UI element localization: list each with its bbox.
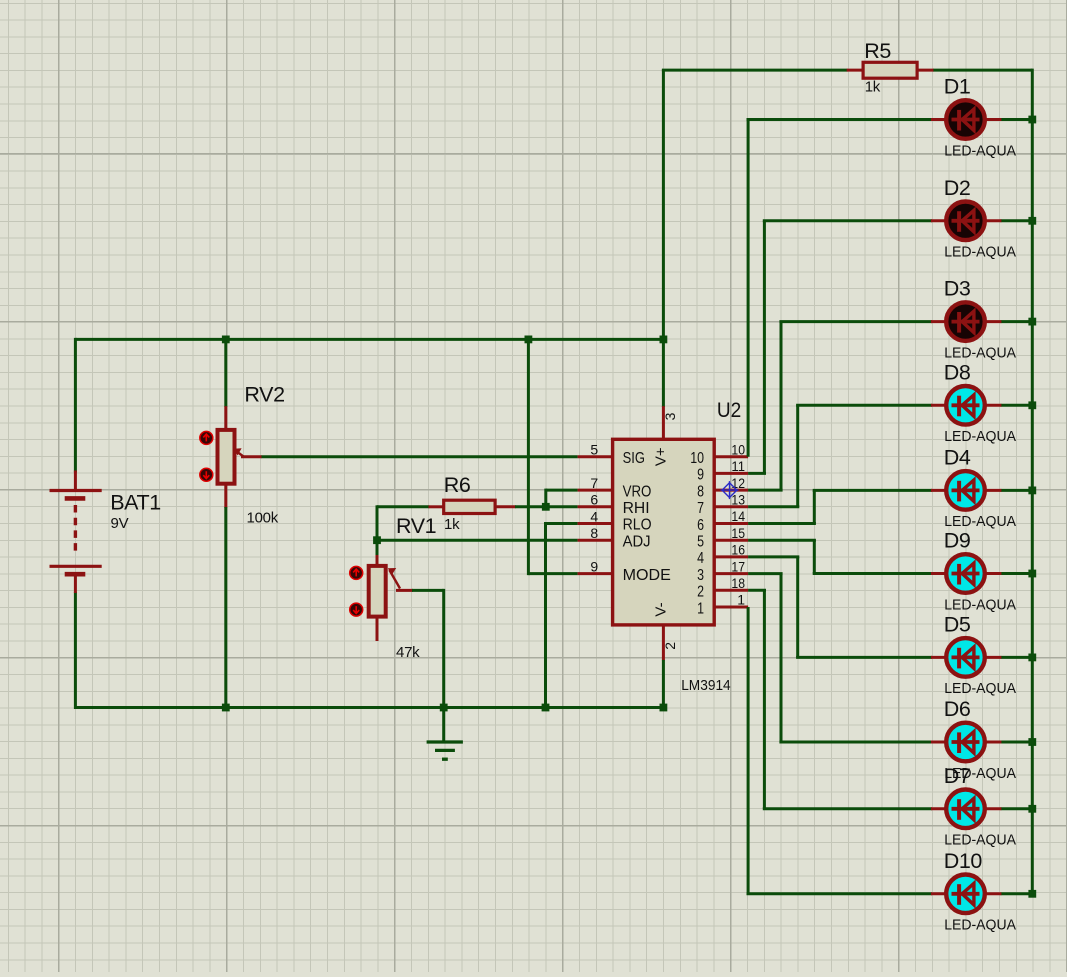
svg-text:LED-AQUA: LED-AQUA bbox=[944, 428, 1016, 445]
svg-text:1: 1 bbox=[737, 592, 745, 608]
svg-text:R6: R6 bbox=[444, 473, 471, 497]
svg-text:7: 7 bbox=[697, 500, 704, 517]
svg-text:1k: 1k bbox=[865, 79, 881, 96]
svg-text:4: 4 bbox=[590, 508, 598, 524]
svg-text:ADJ: ADJ bbox=[623, 533, 651, 550]
svg-text:SIG: SIG bbox=[623, 450, 645, 467]
svg-text:5: 5 bbox=[697, 534, 704, 551]
svg-text:7: 7 bbox=[590, 475, 598, 491]
svg-text:LED-AQUA: LED-AQUA bbox=[944, 244, 1016, 261]
svg-text:D6: D6 bbox=[944, 697, 971, 721]
svg-text:9: 9 bbox=[697, 467, 704, 484]
svg-text:10: 10 bbox=[731, 441, 745, 457]
svg-text:VRO: VRO bbox=[623, 483, 652, 500]
svg-text:RV2: RV2 bbox=[244, 382, 284, 406]
svg-text:D5: D5 bbox=[944, 612, 971, 636]
svg-text:D4: D4 bbox=[944, 445, 971, 469]
svg-text:10: 10 bbox=[690, 450, 704, 467]
svg-text:1k: 1k bbox=[444, 516, 460, 533]
svg-text:LED-AQUA: LED-AQUA bbox=[944, 596, 1016, 613]
svg-text:12: 12 bbox=[731, 475, 745, 491]
svg-text:RLO: RLO bbox=[623, 517, 652, 534]
svg-text:4: 4 bbox=[697, 550, 704, 567]
svg-text:2: 2 bbox=[697, 584, 704, 601]
svg-text:U2: U2 bbox=[717, 398, 741, 422]
svg-text:3: 3 bbox=[697, 567, 704, 584]
svg-text:6: 6 bbox=[590, 492, 598, 508]
svg-text:BAT1: BAT1 bbox=[110, 491, 161, 515]
svg-text:D1: D1 bbox=[944, 75, 971, 99]
svg-text:9V: 9V bbox=[111, 515, 129, 532]
svg-text:RHI: RHI bbox=[623, 500, 650, 517]
svg-text:11: 11 bbox=[731, 458, 745, 474]
svg-text:D9: D9 bbox=[944, 529, 971, 553]
svg-text:D7: D7 bbox=[944, 764, 971, 788]
svg-text:D10: D10 bbox=[944, 849, 983, 873]
svg-text:100k: 100k bbox=[247, 510, 279, 527]
svg-text:V-: V- bbox=[652, 602, 669, 616]
svg-text:LED-AQUA: LED-AQUA bbox=[944, 142, 1016, 159]
svg-text:LED-AQUA: LED-AQUA bbox=[944, 832, 1016, 849]
svg-text:18: 18 bbox=[731, 575, 745, 591]
svg-text:RV1: RV1 bbox=[396, 514, 436, 538]
svg-text:5: 5 bbox=[590, 442, 598, 458]
svg-text:47k: 47k bbox=[396, 644, 420, 661]
svg-text:D3: D3 bbox=[944, 277, 971, 301]
svg-text:MODE: MODE bbox=[623, 567, 671, 584]
svg-text:14: 14 bbox=[731, 508, 745, 524]
svg-text:16: 16 bbox=[731, 542, 745, 558]
svg-text:17: 17 bbox=[731, 558, 745, 574]
svg-text:LED-AQUA: LED-AQUA bbox=[944, 917, 1016, 934]
svg-text:9: 9 bbox=[590, 558, 598, 574]
svg-text:LED-AQUA: LED-AQUA bbox=[944, 344, 1016, 361]
svg-text:LM3914: LM3914 bbox=[681, 677, 731, 694]
svg-text:6: 6 bbox=[697, 517, 704, 534]
svg-text:LED-AQUA: LED-AQUA bbox=[944, 680, 1016, 697]
svg-text:D8: D8 bbox=[944, 360, 971, 384]
svg-text:8: 8 bbox=[590, 525, 598, 541]
svg-text:1: 1 bbox=[697, 600, 704, 617]
svg-text:8: 8 bbox=[697, 483, 704, 500]
svg-text:D2: D2 bbox=[944, 176, 971, 200]
svg-text:3: 3 bbox=[662, 412, 678, 420]
svg-text:R5: R5 bbox=[864, 39, 891, 63]
svg-text:15: 15 bbox=[731, 525, 745, 541]
svg-text:V+: V+ bbox=[652, 447, 669, 466]
svg-text:2: 2 bbox=[662, 642, 678, 650]
